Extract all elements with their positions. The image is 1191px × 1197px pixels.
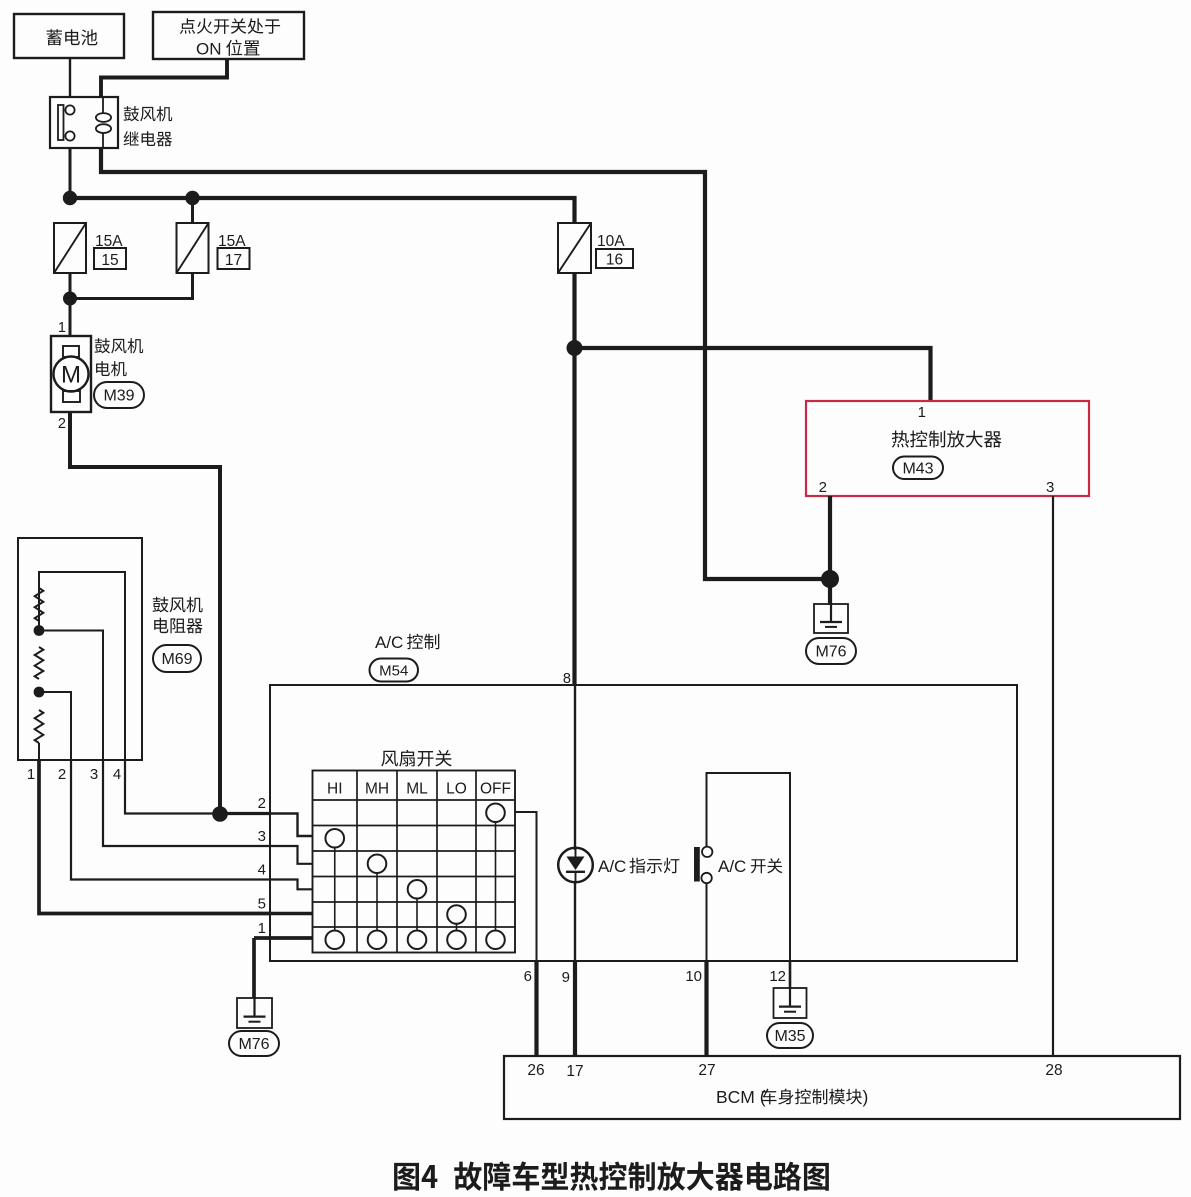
svg-text:2: 2 (819, 479, 827, 496)
svg-text:3: 3 (90, 766, 98, 783)
svg-text:BCM (: BCM ( (716, 1087, 766, 1107)
relay box 鼓风机继电器 (50, 97, 118, 148)
wire pin8 to LED (574, 685, 576, 850)
wire relay contact to bus (69, 148, 72, 199)
ground symbol M76 right (814, 604, 848, 633)
svg-text:M76: M76 (238, 1036, 269, 1053)
junction node bus-fuse15 (63, 191, 77, 205)
motor circle M (54, 357, 89, 392)
bus wire to fuses and fuse 16 (thick) (68, 198, 575, 224)
resistor chain top link (39, 572, 125, 760)
svg-text:12: 12 (769, 968, 786, 985)
relay contact terminal top (65, 105, 74, 114)
wire LED to pin9 (574, 883, 576, 961)
blower motor M39 box (51, 336, 91, 412)
motor brush bottom (63, 391, 80, 402)
wire junction to A/C pin2 (220, 812, 270, 815)
svg-text:M39: M39 (103, 388, 134, 405)
svg-text:1: 1 (918, 404, 926, 421)
relay contact terminal bottom (65, 131, 74, 140)
wire switch bottom to pin10 (706, 883, 708, 962)
switch column connector OFF (495, 822, 497, 930)
svg-text:M54: M54 (379, 662, 408, 679)
wire junction to M43 pin1 (thick) (575, 348, 931, 401)
resistor label 鼓风机电阻器 (153, 597, 203, 613)
svg-text:4: 4 (113, 766, 121, 783)
wire OFF row1 to pin6 (515, 812, 537, 961)
switch contact HI row2 (325, 829, 344, 848)
svg-text:A/C: A/C (718, 857, 746, 876)
junction node resistor tap 2 (34, 687, 45, 698)
switch contact LO row5 (447, 905, 466, 924)
resistor element R3 (35, 710, 44, 743)
wire M43 pin3 to BCM 28 (1052, 496, 1054, 1056)
svg-text:8: 8 (563, 671, 571, 687)
junction node M43 pin2 / relay coil (821, 570, 839, 588)
M43 label 热控制放大器 (892, 430, 1002, 447)
wire A/C pin1 to ground M76 (thick) (252, 938, 256, 998)
svg-text:ON: ON (196, 40, 222, 59)
junction node fuse16/M43 (567, 340, 583, 356)
svg-text:): ) (863, 1087, 869, 1107)
svg-text:28: 28 (1045, 1062, 1062, 1079)
svg-text:1: 1 (258, 920, 266, 937)
svg-text:16: 16 (606, 252, 623, 269)
svg-text:MH: MH (365, 781, 389, 798)
heat control amplifier M43 box (red) (806, 401, 1089, 496)
wire fuse15 to node (69, 273, 72, 299)
fuse F16 10A (558, 223, 591, 273)
svg-text:3: 3 (258, 828, 266, 845)
svg-text:M76: M76 (815, 644, 846, 661)
svg-text:17: 17 (225, 252, 242, 269)
switch contact MH row3 (368, 854, 387, 873)
wire switch top loop (707, 773, 791, 961)
A/C control box M54 (270, 685, 1017, 961)
switch column connector ML (416, 899, 418, 931)
wire resistor pin3 to A/C pin3 (103, 760, 270, 846)
svg-text:1: 1 (58, 320, 66, 336)
BCM box (504, 1056, 1180, 1119)
wire fuse16 to junction (thick) (572, 273, 576, 348)
switch contact OFF row1 (486, 803, 505, 822)
svg-text:4: 4 (258, 862, 266, 879)
wire pin10 to BCM 27 (thick) (704, 961, 708, 1056)
junction node resistor tap 3 (34, 625, 45, 636)
svg-text:A/C: A/C (598, 857, 626, 876)
resistor element R1 (35, 588, 44, 621)
wire M43 pin2 to ground (thick) (828, 496, 832, 605)
wire resistor pin1 to A/C pin5 (thick) (39, 760, 270, 914)
motor brush top (63, 346, 79, 357)
svg-text:ML: ML (406, 781, 428, 798)
svg-text:26: 26 (527, 1062, 544, 1079)
switch column connector LO (456, 924, 458, 931)
wire pin9 to BCM 17 (thick) (573, 961, 577, 1056)
wire pin6 to BCM 26 (thick) (534, 961, 538, 1056)
switch contacts common row6 (325, 930, 344, 949)
wire pin12 to ground M35 (789, 961, 792, 989)
wire pin1 to table row6 (thick) (254, 936, 313, 940)
wire pin2 step to table row2 (270, 814, 313, 837)
ignition switch box 点火开关处于 ON 位置 (153, 12, 304, 59)
ground connector pill M76 left (229, 1031, 279, 1056)
wire junction down to A/C box pin8 (thick) (572, 348, 576, 686)
fuse F17 15A (177, 223, 209, 273)
switch contact ML row4 (408, 880, 427, 899)
resistor element R2 (35, 647, 44, 679)
svg-text:15: 15 (101, 252, 118, 269)
wire tap3 inside (39, 631, 103, 761)
resistor connector pill M69 (153, 645, 201, 672)
svg-text:9: 9 (562, 969, 570, 986)
junction node motor/resistor to A/C pin2 (212, 806, 228, 822)
svg-text:17: 17 (566, 1063, 583, 1080)
fuse F15 number box 15 (94, 248, 126, 269)
switch column connector HI (334, 848, 336, 931)
svg-text:3: 3 (1046, 479, 1054, 496)
motor connector pill M39 (94, 382, 144, 408)
wire bus to fuse 17 (191, 198, 194, 224)
A/C control connector pill M54 (370, 659, 419, 682)
wire resistor pin2 to A/C pin4 (71, 760, 270, 880)
wire motor pin2 down to junction (thick) (70, 412, 220, 815)
fuse F17 number box 17 (218, 248, 250, 269)
svg-text:1: 1 (27, 766, 35, 783)
svg-text:A/C: A/C (375, 633, 403, 652)
ground connector pill M35 (767, 1023, 813, 1048)
fan switch label 风扇开关 (381, 750, 452, 767)
wire relay coil output (thick) to node under M43 pin2 (101, 148, 828, 579)
switch column connector MH (376, 873, 378, 930)
fuse F15 15A (54, 223, 86, 273)
battery box 蓄电池 (14, 14, 124, 58)
M43 connector pill (893, 457, 943, 480)
wire battery to relay pin (69, 58, 71, 97)
svg-text:2: 2 (58, 416, 66, 432)
fan switch table grid (313, 771, 516, 953)
svg-text:M69: M69 (161, 651, 192, 668)
motor label 鼓风机电机 (95, 338, 144, 353)
wire fuse17 to node (70, 273, 193, 299)
wire ignition to relay coil (thick) (101, 59, 227, 97)
fuse F16 number box 16 (596, 249, 633, 268)
svg-text:10: 10 (685, 968, 702, 985)
svg-text:10A: 10A (597, 233, 625, 250)
wire resistor pin4 to junction (125, 760, 218, 814)
ground symbol M76 left (237, 998, 272, 1028)
wire node to motor pin 1 (69, 299, 72, 337)
relay label 鼓风机继电器 (124, 106, 173, 121)
svg-text:27: 27 (698, 1062, 715, 1079)
svg-text:2: 2 (58, 766, 66, 783)
ground connector pill M76 right (806, 638, 856, 664)
svg-text:M43: M43 (902, 460, 933, 477)
A/C indicator LED (558, 848, 593, 883)
wire pin5 to table row5 (270, 912, 313, 915)
junction node bus-fuse17 (185, 191, 199, 205)
relay contact bar (58, 105, 64, 140)
junction node fuses to motor (63, 292, 77, 306)
wire pin3 step to table row3 (270, 846, 313, 864)
A/C switch symbol (695, 848, 700, 882)
blower resistor M69 outer box (18, 538, 142, 760)
svg-text:LO: LO (446, 781, 467, 798)
svg-text:5: 5 (258, 896, 266, 913)
svg-text:2: 2 (258, 795, 266, 812)
svg-text:OFF: OFF (480, 781, 511, 798)
relay coil (102, 97, 104, 114)
svg-text:M: M (61, 362, 81, 389)
svg-text:M35: M35 (774, 1028, 805, 1045)
ground symbol M35 (774, 988, 807, 1018)
svg-text:HI: HI (327, 781, 343, 798)
caption 图4 故障车型热控制放大器电路图 (394, 1161, 829, 1191)
svg-text:6: 6 (524, 968, 532, 985)
wire pin4 step to table row4 (270, 880, 313, 890)
wire tap2 inside (39, 692, 71, 760)
